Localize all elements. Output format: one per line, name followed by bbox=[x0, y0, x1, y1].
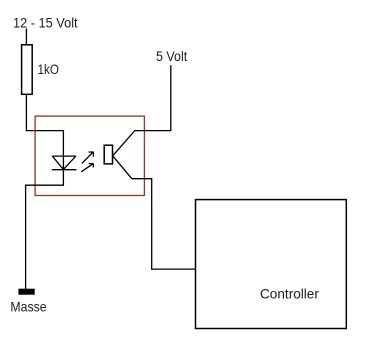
LED D1 anode bar bbox=[52, 155, 76, 157]
phototransistor Q1 base bar bbox=[104, 145, 112, 164]
svg-text:Controller: Controller bbox=[260, 286, 319, 302]
svg-text:1kO: 1kO bbox=[38, 61, 59, 77]
wire emitter to controller bbox=[113, 156, 196, 269]
wire supply to resistor bbox=[25, 29, 27, 46]
wire LED cathode to ground bbox=[26, 170, 64, 289]
wire collector to 5V bbox=[113, 65, 171, 155]
block Controller bbox=[196, 200, 347, 329]
svg-text:12 - 15 Volt: 12 - 15 Volt bbox=[13, 14, 78, 30]
resistor R1 bbox=[22, 45, 33, 95]
ground (Masse) bar bbox=[18, 289, 34, 295]
LED D1 through-wire bbox=[62, 156, 64, 170]
svg-text:Masse: Masse bbox=[10, 299, 46, 315]
svg-text:5 Volt: 5 Volt bbox=[156, 48, 187, 64]
wire resistor to LED anode bbox=[26, 94, 63, 156]
LED D1 triangle bbox=[52, 156, 76, 169]
light arrow lower bbox=[81, 164, 93, 172]
LED D1 cathode bar bbox=[52, 169, 77, 171]
light arrow upper bbox=[82, 152, 94, 164]
optocoupler package outline (red box) bbox=[35, 116, 144, 195]
